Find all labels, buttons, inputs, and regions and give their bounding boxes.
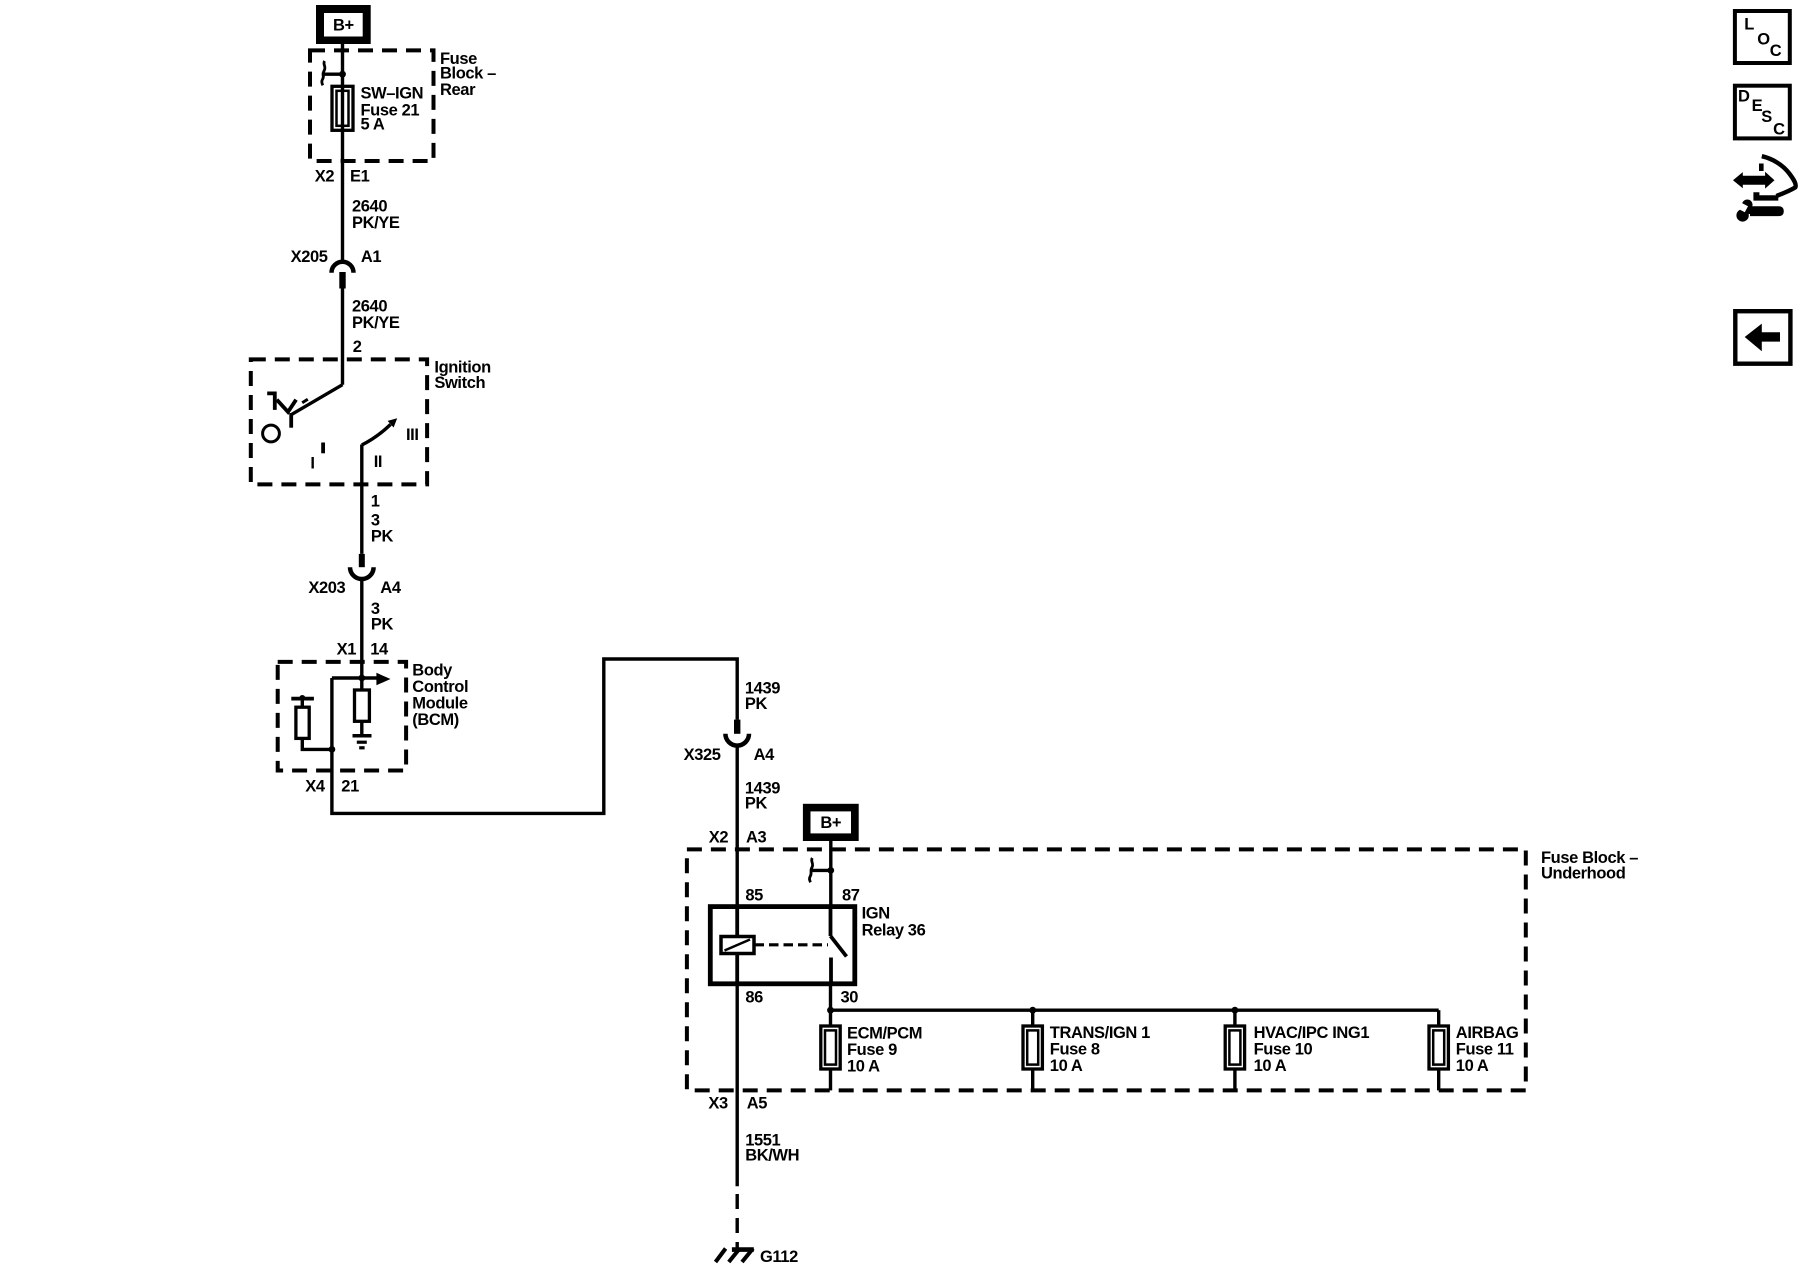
svg-text:A5: A5	[747, 1094, 768, 1112]
svg-text:X1: X1	[337, 641, 357, 659]
svg-text:10 A: 10 A	[1050, 1057, 1083, 1075]
svg-text:BK/WH: BK/WH	[745, 1147, 799, 1165]
svg-text:ECM/PCM: ECM/PCM	[847, 1024, 922, 1042]
svg-text:C: C	[1773, 120, 1785, 138]
svg-text:85: 85	[745, 887, 763, 905]
svg-text:30: 30	[841, 989, 859, 1007]
svg-text:B+: B+	[333, 16, 354, 34]
svg-text:PK/YE: PK/YE	[352, 314, 400, 332]
svg-text:Fuse 8: Fuse 8	[1050, 1041, 1100, 1059]
svg-text:X205: X205	[291, 248, 328, 266]
svg-text:A4: A4	[754, 746, 776, 764]
svg-text:86: 86	[745, 989, 763, 1007]
svg-text:Control: Control	[412, 678, 468, 696]
svg-text:2: 2	[353, 338, 362, 356]
svg-text:SW–IGN: SW–IGN	[361, 84, 424, 102]
svg-text:D: D	[1738, 88, 1750, 106]
svg-text:PK: PK	[745, 795, 768, 813]
svg-text:PK/YE: PK/YE	[352, 214, 400, 232]
svg-text:Fuse 11: Fuse 11	[1456, 1041, 1514, 1059]
svg-text:X2: X2	[709, 829, 729, 847]
svg-text:X325: X325	[684, 746, 721, 764]
svg-text:Switch: Switch	[434, 374, 485, 392]
svg-text:E1: E1	[350, 167, 370, 185]
svg-text:G112: G112	[760, 1248, 798, 1266]
svg-text:5 A: 5 A	[361, 116, 385, 134]
svg-text:14: 14	[370, 641, 389, 659]
svg-text:B+: B+	[820, 814, 841, 832]
svg-text:10 A: 10 A	[1456, 1057, 1489, 1075]
svg-text:Body: Body	[412, 662, 453, 680]
svg-text:Module: Module	[412, 695, 468, 713]
svg-text:O: O	[1757, 30, 1770, 48]
svg-text:A1: A1	[361, 248, 382, 266]
svg-text:L: L	[1744, 16, 1754, 34]
svg-text:2640: 2640	[352, 198, 387, 216]
svg-text:Relay 36: Relay 36	[862, 922, 926, 940]
svg-text:II: II	[374, 453, 382, 471]
svg-text:PK: PK	[371, 528, 394, 546]
svg-text:10 A: 10 A	[847, 1057, 880, 1075]
svg-text:A3: A3	[746, 829, 767, 847]
svg-text:X2: X2	[315, 167, 335, 185]
svg-text:PK: PK	[745, 695, 768, 713]
svg-text:1: 1	[371, 493, 380, 511]
svg-text:IGN: IGN	[862, 905, 890, 923]
svg-text:X203: X203	[308, 579, 345, 597]
svg-text:X3: X3	[708, 1094, 728, 1112]
svg-text:Rear: Rear	[440, 81, 476, 99]
svg-text:TRANS/IGN 1: TRANS/IGN 1	[1050, 1024, 1150, 1042]
svg-text:PK: PK	[371, 616, 394, 634]
svg-text:87: 87	[842, 887, 860, 905]
svg-text:A4: A4	[380, 579, 402, 597]
svg-text:Underhood: Underhood	[1541, 864, 1625, 882]
svg-text:I: I	[310, 454, 314, 472]
svg-text:Fuse 9: Fuse 9	[847, 1041, 897, 1059]
svg-text:(BCM): (BCM)	[412, 711, 459, 729]
svg-text:HVAC/IPC ING1: HVAC/IPC ING1	[1254, 1024, 1370, 1042]
svg-text:S: S	[1761, 108, 1772, 126]
svg-text:C: C	[1770, 42, 1782, 60]
svg-text:Fuse 10: Fuse 10	[1254, 1041, 1313, 1059]
svg-text:AIRBAG: AIRBAG	[1456, 1024, 1519, 1042]
svg-text:21: 21	[341, 777, 359, 795]
svg-text:10 A: 10 A	[1254, 1057, 1287, 1075]
svg-text:2640: 2640	[352, 298, 387, 316]
svg-text:III: III	[406, 426, 419, 444]
svg-text:X4: X4	[305, 777, 326, 795]
